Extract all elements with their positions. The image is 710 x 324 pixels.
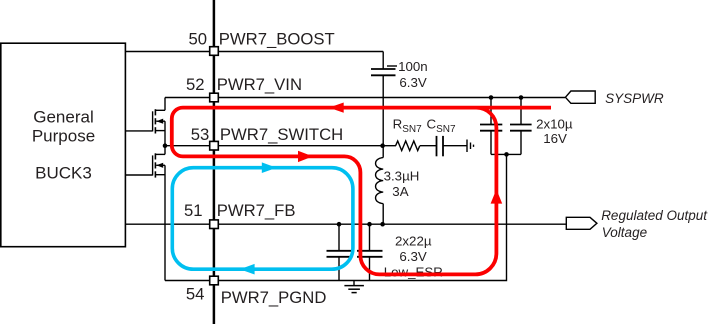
node switch junction dot at FETs [163, 143, 168, 148]
node switch/snubber/inductor junction [380, 143, 385, 148]
transistor Q1 high-side FET [153, 98, 165, 146]
wire bootstrap cap to switch node (crosses VIN) [382, 75, 384, 145]
pin 54 square [210, 276, 219, 285]
transistor Q2 low-side FET [153, 146, 165, 281]
svg-text:3.3µH: 3.3µH [384, 168, 420, 183]
label pin 51 PWR7_FB [184, 201, 295, 220]
label pin 52 PWR7_VIN [186, 75, 302, 94]
svg-text:51: 51 [184, 201, 203, 220]
red arrowhead right (switch) [298, 151, 313, 162]
svg-text:53: 53 [191, 125, 210, 144]
svg-text:16V: 16V [543, 131, 567, 146]
svg-text:52: 52 [186, 75, 205, 94]
node input caps VIN dots [489, 95, 494, 100]
red input current loop [172, 108, 551, 275]
svg-text:50: 50 [188, 29, 207, 48]
svg-text:6.3V: 6.3V [399, 249, 426, 264]
label 2x22u 6.3V Low_ESR [384, 233, 443, 279]
inductor L1 3.3uH [376, 146, 384, 225]
svg-text:PWR7_SWITCH: PWR7_SWITCH [220, 125, 343, 144]
svg-text:Purpose: Purpose [32, 127, 95, 146]
svg-text:PWR7_VIN: PWR7_VIN [217, 75, 302, 94]
cyan arrowhead left (bottom) [240, 264, 255, 275]
svg-text:100n: 100n [398, 59, 428, 74]
svg-text:BUCK3: BUCK3 [35, 163, 92, 182]
svg-text:SYSPWR: SYSPWR [605, 91, 664, 106]
label pin 53 PWR7_SWITCH [191, 125, 343, 144]
label 100n 6.3V [398, 59, 428, 90]
svg-text:CSN7: CSN7 [427, 117, 457, 135]
wire PGND rail [165, 154, 507, 280]
svg-text:2x10µ: 2x10µ [536, 116, 573, 131]
pin 52 square [210, 93, 219, 102]
capacitor C2 2x22u #1 [327, 224, 352, 280]
wire PWR7_FB / regulated output [125, 223, 566, 225]
pin 51 square [210, 220, 219, 229]
node output cap 1 junction [337, 222, 342, 227]
label RSN7 CSN7 [393, 117, 456, 135]
svg-text:54: 54 [186, 284, 205, 303]
label 2x10u 16V [536, 116, 573, 145]
svg-text:PWR7_PGND: PWR7_PGND [221, 288, 327, 307]
svg-text:Low_ESR: Low_ESR [384, 264, 443, 279]
red arrowhead left (VIN) [329, 103, 344, 113]
connector SYSPWR [565, 91, 663, 106]
label tick 100n [387, 65, 397, 67]
pin 53 square [210, 141, 219, 150]
red arrowhead up (return) [491, 189, 503, 203]
wire gate drive Q1 [126, 130, 153, 132]
svg-text:3A: 3A [392, 184, 408, 199]
capacitor C4 2x10u #1 [480, 98, 502, 155]
cyan output current loop [172, 168, 353, 270]
label pin 50 PWR7_BOOST [188, 29, 334, 48]
wire input caps ground tie [491, 153, 521, 155]
IC boundary bus line [213, 0, 216, 324]
wire bootstrap vertical (BOOST down to cap) [382, 52, 384, 70]
connector Regulated Output Voltage [566, 208, 708, 240]
ground (earth symbol below output caps) [344, 281, 364, 293]
wire PWR7_SWITCH [165, 145, 383, 147]
capacitor CSN7 [437, 136, 468, 156]
wire gate drive Q2 [126, 174, 153, 176]
controller box U1 General Purpose BUCK3 [1, 43, 126, 247]
node inductor output junction [380, 222, 385, 227]
svg-text:PWR7_BOOST: PWR7_BOOST [219, 29, 335, 48]
capacitor C5 2x10u #2 [510, 98, 532, 155]
resistor RSN7 [383, 141, 437, 151]
label pin 54 PWR7_PGND [186, 284, 327, 307]
svg-text:RSN7: RSN7 [393, 117, 423, 135]
svg-text:6.3V: 6.3V [399, 75, 426, 90]
svg-text:2x22µ: 2x22µ [395, 233, 432, 248]
label 3.3uH 3A [384, 168, 420, 199]
pin 50 square [210, 47, 219, 56]
wire PWR7_BOOST (box to bootstrap cap) [125, 51, 383, 53]
node output cap 2 junction [367, 222, 372, 227]
node input caps ground dot [504, 152, 509, 157]
capacitor C1 100n bootstrap [371, 69, 396, 75]
svg-text:Regulated Output: Regulated Output [601, 208, 708, 223]
cyan arrowhead right (top) [262, 162, 277, 173]
svg-text:Voltage: Voltage [602, 225, 647, 240]
svg-text:General: General [33, 107, 93, 126]
svg-text:PWR7_FB: PWR7_FB [217, 201, 296, 220]
ground (snubber, sideways) [467, 140, 474, 153]
capacitor C3 2x22u #2 [357, 224, 383, 280]
wire PWR7_VIN [165, 97, 565, 99]
